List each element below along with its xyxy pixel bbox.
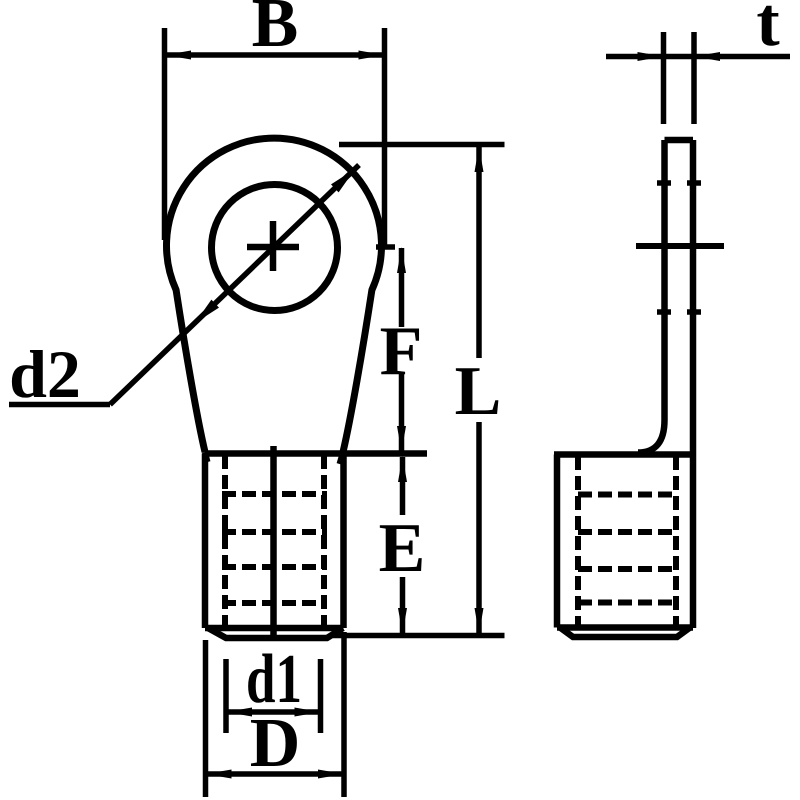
taper overshoot left [205, 452, 208, 462]
F arrowhead up [397, 247, 406, 273]
barrel seam center line [270, 446, 277, 638]
dimension B [165, 28, 396, 247]
barrel right edge [340, 454, 347, 629]
B extension line right [382, 28, 388, 247]
svg-text:D: D [250, 705, 301, 782]
hole top tick marks [657, 180, 701, 186]
D extension line left [203, 640, 209, 797]
t arrowhead pointing left [694, 52, 720, 61]
svg-text:t: t [756, 0, 779, 61]
E arrowhead down [398, 608, 407, 634]
D arrowhead right [318, 770, 344, 779]
d1 extension line left [223, 659, 229, 733]
side barrel left edge [554, 455, 561, 628]
d2 arrowhead upper right [331, 169, 355, 192]
taper overshoot right [340, 452, 344, 464]
side barrel bottom edge [557, 624, 693, 631]
barrel mouth chamfer [208, 628, 343, 638]
side dashed bore line right [673, 456, 679, 636]
t arrowhead pointing right [638, 52, 664, 61]
front view: stud hole circle [212, 185, 338, 311]
svg-text:F: F [380, 313, 423, 390]
side barrel thread dashes [578, 456, 676, 636]
d2 leader line [110, 165, 359, 405]
dashed serration rows [222, 494, 327, 603]
L arrowhead down [475, 608, 484, 634]
svg-text:d2: d2 [9, 336, 81, 412]
E arrowhead up [398, 456, 407, 482]
dimension d1 [226, 659, 321, 733]
t extension line right [691, 32, 697, 124]
D extension line right [341, 632, 347, 797]
E dimension line upper [400, 457, 406, 515]
t extension line left [661, 32, 667, 124]
front view: ring head teardrop outline [167, 138, 382, 452]
dashed bore line left [222, 455, 228, 637]
L arrowhead up [475, 146, 484, 172]
barrel bottom edge [205, 625, 344, 632]
dimension d2 leader [9, 165, 359, 405]
d2 label underline [9, 402, 110, 408]
L top extension line [339, 142, 505, 148]
F dimension line upper [399, 248, 405, 327]
dimension E [400, 457, 406, 633]
side barrel top edge [554, 451, 693, 458]
hole bottom tick marks [657, 309, 701, 315]
dimension F [399, 248, 405, 451]
side view [554, 140, 693, 637]
dimension t [606, 32, 790, 124]
t dimension line [606, 54, 790, 60]
E dimension line lower [400, 577, 406, 633]
front barrel outline [205, 446, 427, 638]
front view: hole center crosshair [247, 221, 299, 271]
hole centerline [636, 243, 724, 249]
tongue top edge [665, 137, 694, 144]
L bottom extension line [333, 633, 505, 639]
svg-text:E: E [379, 510, 426, 587]
side barrel mouth chamfer [560, 628, 690, 638]
F dimension line lower [399, 372, 405, 451]
F arrowhead down [397, 426, 406, 452]
D dimension line [206, 771, 345, 777]
dashed bore line right [321, 455, 327, 637]
d1 arrowhead right [295, 708, 321, 717]
d1 dimension line [226, 709, 321, 715]
side view hole tangent ticks and centerline [636, 183, 724, 312]
barrel top line [205, 450, 427, 457]
front barrel thread dashes [222, 455, 327, 637]
B arrowhead right [359, 51, 385, 60]
tangent tick on right extension [376, 244, 395, 250]
barrel left edge [202, 454, 209, 629]
side dashed serration rows [578, 495, 676, 603]
tongue left edge with fillet into barrel [638, 140, 665, 453]
B extension line left [162, 28, 168, 240]
d1 extension line right [318, 659, 324, 733]
L dimension line upper [476, 147, 482, 358]
d2 arrowhead lower left [195, 300, 219, 323]
B dimension line [165, 52, 385, 58]
side dashed bore line left [575, 456, 581, 636]
dimension D [206, 632, 345, 797]
svg-text:L: L [455, 353, 502, 430]
dimension L [333, 145, 505, 636]
svg-text:B: B [252, 0, 299, 62]
tongue right edge down to barrel bottom [690, 140, 697, 628]
D arrowhead left [206, 770, 232, 779]
B arrowhead left [165, 51, 191, 60]
L dimension line lower [476, 422, 482, 634]
d1 arrowhead left [226, 708, 252, 717]
